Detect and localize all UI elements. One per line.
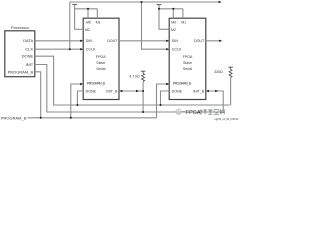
svg-text:PROGRAM_B: PROGRAM_B — [8, 69, 34, 74]
svg-text:CLK: CLK — [25, 47, 33, 52]
wire PROGRAM_B from processor — [35, 72, 41, 118]
svg-text:PROGRAM_B: PROGRAM_B — [1, 115, 27, 120]
wire DONE1 hook — [77, 91, 83, 105]
junction VCC2/M0 — [172, 8, 174, 10]
resistor R2 330 pullup — [214, 67, 233, 105]
svg-text:M1: M1 — [181, 20, 186, 24]
wire DOUT1 to DIN2 — [119, 40, 167, 42]
arrow into PROGRAM_B pin U2 — [166, 83, 169, 85]
wire CCLK2 drop — [142, 2, 167, 49]
svg-text:INIT_B: INIT_B — [106, 89, 118, 93]
svg-text:M2: M2 — [171, 28, 176, 32]
junction VCC2 stem — [158, 8, 160, 10]
arrow into DIN pin U2 — [166, 40, 169, 42]
junction CLK rail/CCLK2 drop — [141, 1, 143, 3]
watermark text — [182, 109, 225, 116]
wire INIT_B1 stub — [122, 90, 144, 92]
svg-text:M0: M0 — [86, 20, 91, 24]
FPGA U1 — [83, 18, 119, 99]
junction CLK/CCLK1 — [69, 48, 71, 50]
svg-text:Serial: Serial — [96, 67, 105, 71]
svg-text:FPGA: FPGA — [96, 55, 106, 59]
arrow CLK to next device — [219, 1, 222, 3]
arrow into CCLK pin U1 — [80, 48, 83, 50]
svg-text:DOUT: DOUT — [107, 39, 118, 43]
svg-text:DONE: DONE — [172, 89, 183, 93]
arrow INIT_B2 outgoing — [215, 90, 218, 92]
wire DONE2 hook — [161, 91, 170, 105]
junction R1/INIT_B rail — [142, 111, 144, 113]
svg-text:PROGRAM_B: PROGRAM_B — [87, 82, 106, 86]
resistor R1 4.7k pullup — [129, 71, 145, 112]
FPGA U2 — [169, 18, 206, 99]
svg-text:Slave: Slave — [96, 61, 105, 65]
svg-text:INIT_B: INIT_B — [193, 89, 205, 93]
svg-text:M0: M0 — [171, 20, 176, 24]
svg-text:DONE: DONE — [22, 54, 34, 59]
watermark logo — [176, 109, 181, 114]
svg-text:DIN: DIN — [86, 39, 93, 43]
svg-text:PROGRAM_B: PROGRAM_B — [173, 82, 192, 86]
svg-text:CCLK: CCLK — [172, 48, 182, 52]
arrow DOUT to next device — [219, 40, 222, 42]
arrow INIT_B1 outgoing — [136, 90, 139, 92]
wire CLK to CCLK1 — [35, 48, 81, 50]
junction DONE1/DONE rail — [76, 104, 78, 106]
wire DONE net — [35, 56, 230, 105]
svg-text:DONE: DONE — [86, 89, 97, 93]
svg-text:Serial: Serial — [183, 67, 192, 71]
svg-text:DOUT: DOUT — [194, 39, 205, 43]
junction PROGRAM_B1/rail — [70, 117, 72, 119]
svg-text:4.7 kΩ: 4.7 kΩ — [129, 74, 140, 78]
arrow into PROGRAM_B pin U1 — [80, 83, 83, 85]
svg-text:INIT: INIT — [26, 62, 34, 67]
svg-text:FPGA: FPGA — [186, 110, 201, 116]
svg-text:FPGA: FPGA — [183, 55, 193, 59]
junction processor PROGRAM_B/rail — [40, 117, 42, 119]
wire PROGRAM_B rail — [28, 117, 157, 119]
svg-text:CCLK: CCLK — [86, 48, 96, 52]
wire DOUT2 out — [206, 40, 220, 42]
svg-text:330Ω: 330Ω — [214, 70, 223, 74]
wire PROGRAM_B1 hook — [71, 84, 81, 118]
wire DATA to DIN1 — [35, 40, 81, 42]
VCC V2 mode pullup — [157, 5, 183, 30]
svg-text:Processor: Processor — [11, 25, 30, 30]
wire CLK top rail — [70, 1, 219, 3]
junction DONE2/DONE rail — [160, 104, 162, 106]
svg-text:Slave: Slave — [183, 61, 192, 65]
arrow into DIN pin U1 — [80, 40, 83, 42]
arrow into INIT_B pin U2 — [206, 90, 209, 92]
wire PROGRAM_B2 hook — [157, 84, 167, 118]
arrow into CCLK pin U2 — [166, 48, 169, 50]
svg-text:ug470_c2_09_072212: ug470_c2_09_072212 — [214, 118, 238, 121]
wire CLK riser — [69, 2, 71, 49]
VCC V1 mode pullup — [72, 5, 97, 30]
svg-text:DIN: DIN — [172, 39, 179, 43]
junction VCC1/M0 — [87, 8, 89, 10]
processor — [5, 25, 35, 77]
junction R1/INIT_B1 — [142, 90, 144, 92]
arrow into INIT_B pin U1 — [119, 90, 122, 92]
svg-text:DATA: DATA — [23, 38, 33, 43]
svg-text:M2: M2 — [85, 28, 90, 32]
wire INIT_B net — [35, 65, 223, 113]
svg-text:M1: M1 — [96, 20, 101, 24]
